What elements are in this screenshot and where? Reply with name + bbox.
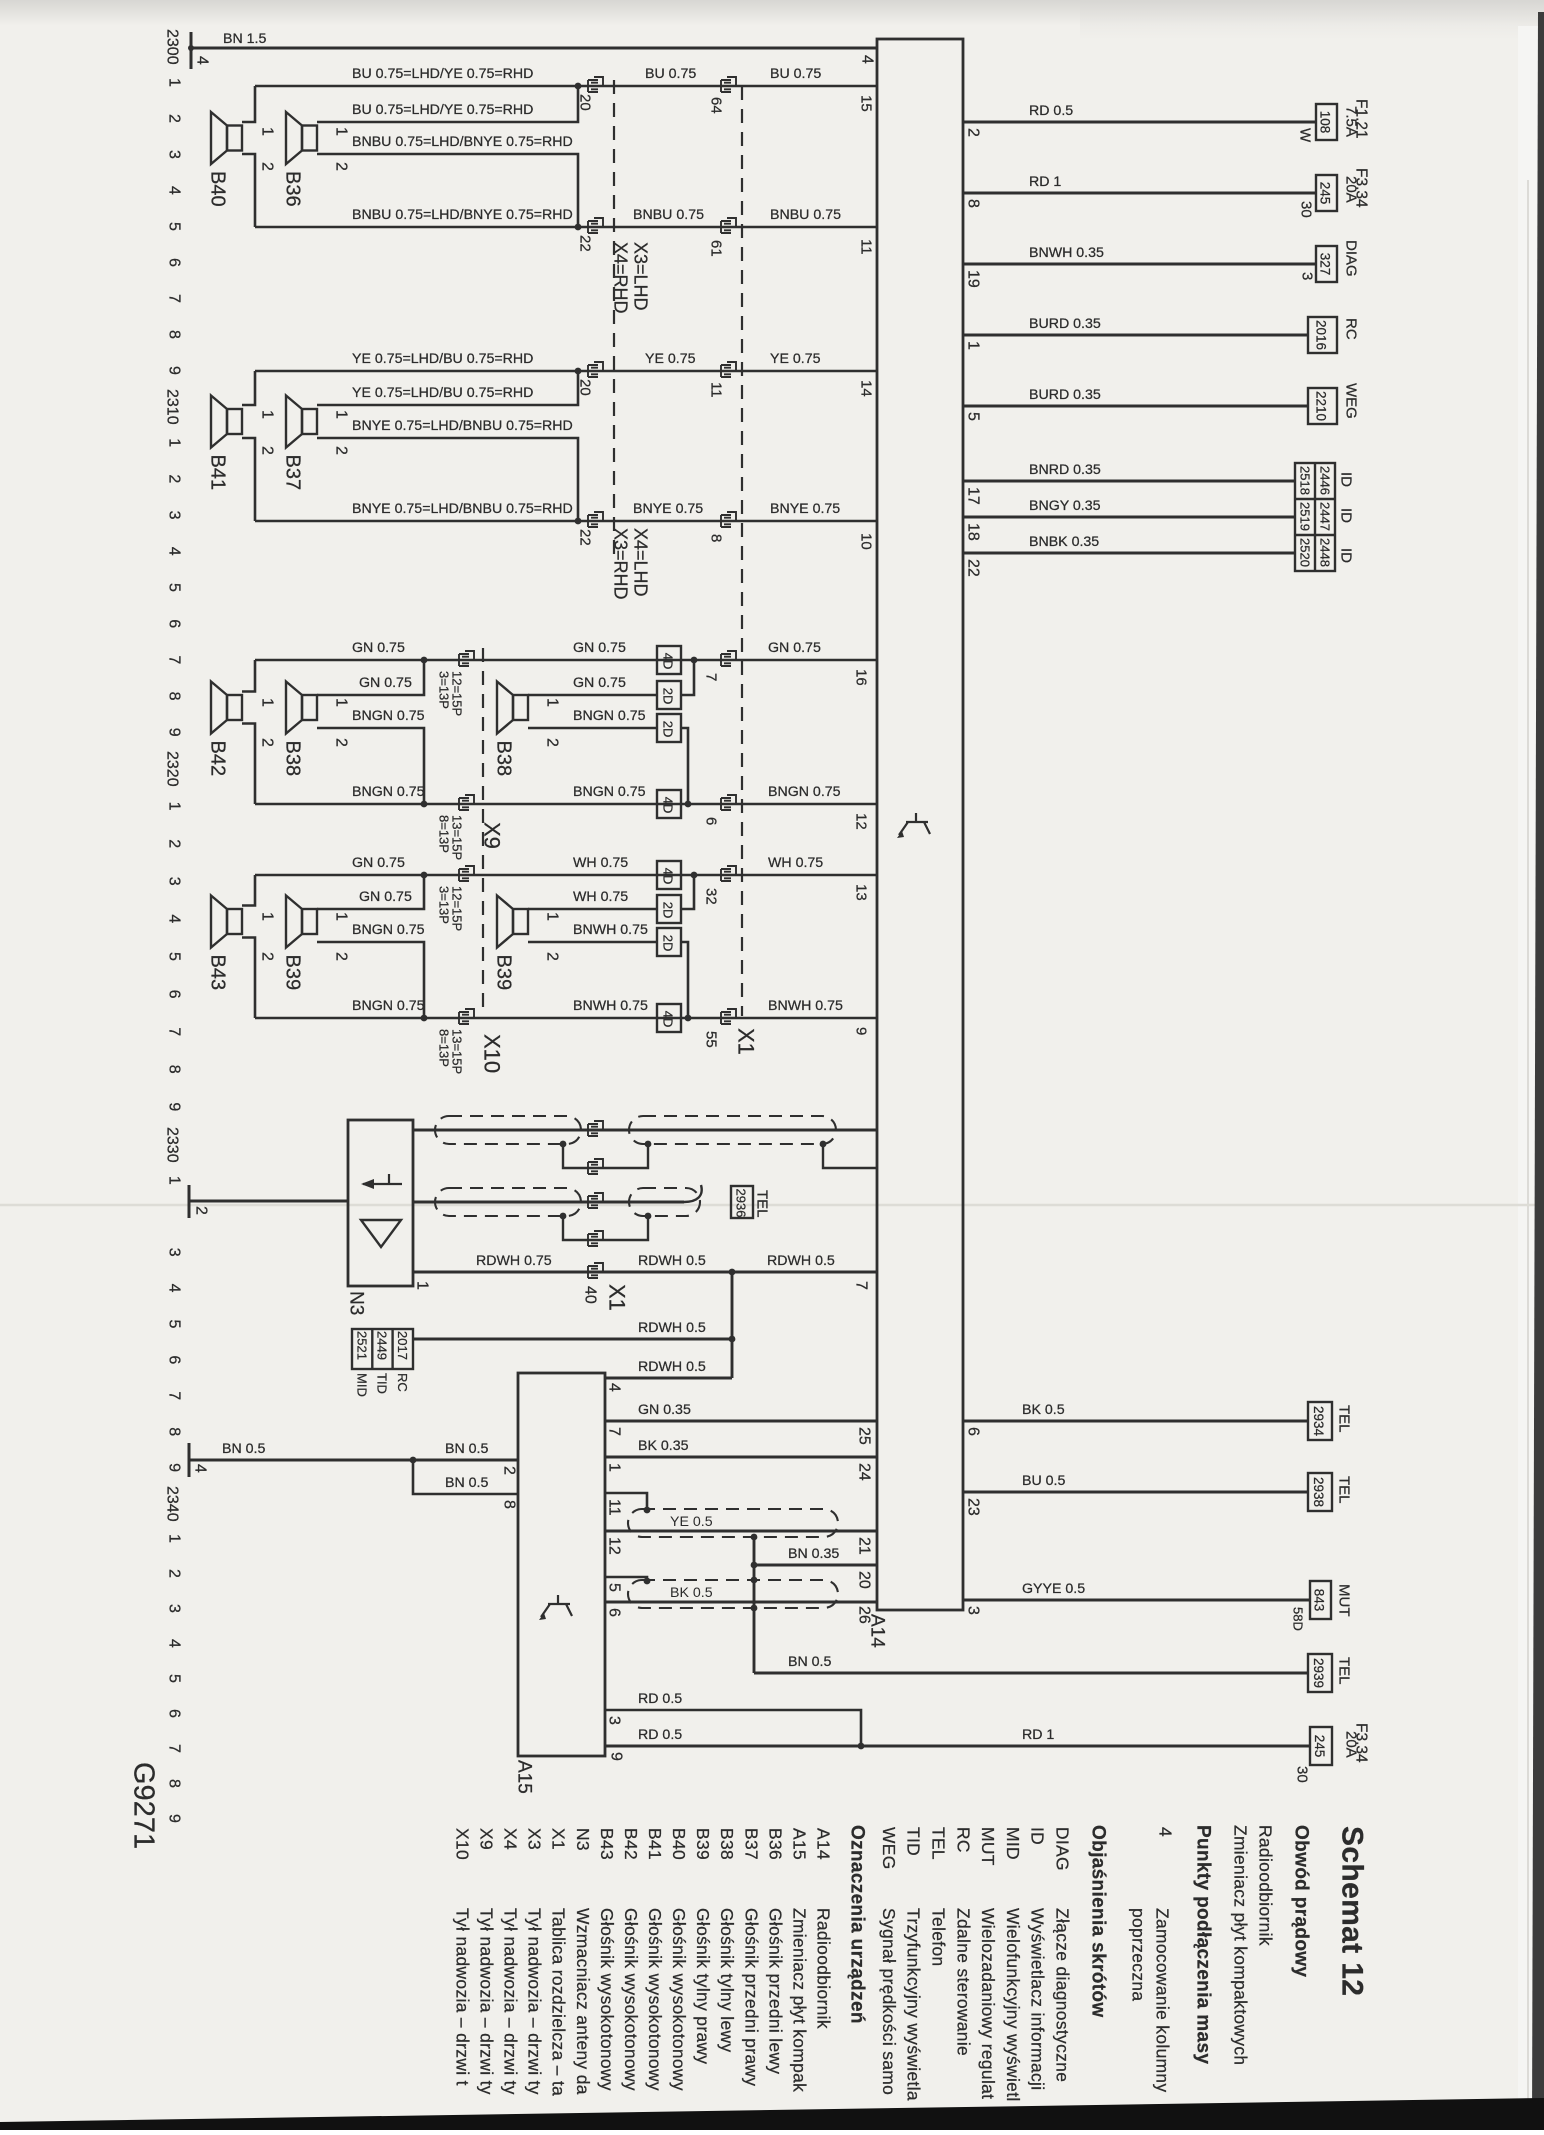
svg-text:6: 6 bbox=[166, 1709, 183, 1718]
svg-text:BNWH 0.75: BNWH 0.75 bbox=[768, 998, 843, 1014]
svg-text:2: 2 bbox=[501, 1466, 518, 1475]
svg-text:1: 1 bbox=[333, 698, 350, 707]
svg-text:8: 8 bbox=[965, 199, 982, 208]
wire BNGN 0.75 (woofer pin 2 join) bbox=[317, 942, 424, 1018]
shield drain to A14 (upper) bbox=[823, 1144, 877, 1168]
svg-text:2449: 2449 bbox=[375, 1331, 390, 1360]
svg-text:1: 1 bbox=[166, 1534, 183, 1543]
svg-text:Głośnik tylny prawy: Głośnik tylny prawy bbox=[693, 1908, 713, 2064]
junction upper pair bbox=[575, 368, 582, 375]
svg-text:BNWH 0.35: BNWH 0.35 bbox=[1029, 245, 1104, 261]
svg-text:BNYE 0.75: BNYE 0.75 bbox=[770, 501, 840, 517]
svg-text:1: 1 bbox=[965, 341, 982, 350]
junction RDWH bbox=[729, 1269, 736, 1276]
svg-text:BNGN 0.75: BNGN 0.75 bbox=[352, 922, 425, 938]
svg-text:20: 20 bbox=[856, 1571, 873, 1589]
svg-text:BNBU 0.75: BNBU 0.75 bbox=[633, 207, 704, 223]
svg-text:Zmieniacz płyt kompak: Zmieniacz płyt kompak bbox=[789, 1908, 809, 2092]
svg-text:2448: 2448 bbox=[1318, 538, 1333, 567]
wire stub B42 pin 1 bbox=[242, 660, 255, 692]
wire BK 0.35 (A15 pin 1 to A14 pin 24) bbox=[605, 1456, 877, 1459]
svg-text:Schemat 12: Schemat 12 bbox=[1336, 1826, 1369, 1996]
svg-text:7: 7 bbox=[166, 1391, 183, 1400]
svg-text:16: 16 bbox=[853, 669, 870, 686]
svg-text:2: 2 bbox=[544, 738, 561, 747]
svg-text:2519: 2519 bbox=[1298, 502, 1313, 531]
wire GN 0.75 via 2D box joining upper bbox=[528, 660, 694, 695]
svg-text:1: 1 bbox=[544, 912, 561, 921]
svg-text:Tył nadwozia – drzwi ty: Tył nadwozia – drzwi ty bbox=[501, 1908, 521, 2095]
variant box 4D (lower) bbox=[657, 1004, 681, 1032]
shield drain junction right (lower) bbox=[645, 1213, 652, 1220]
connector boundary dashed line X9/X10 bbox=[482, 648, 484, 1016]
svg-text:4: 4 bbox=[166, 1284, 183, 1293]
svg-text:327: 327 bbox=[1318, 253, 1333, 276]
svg-text:5: 5 bbox=[166, 1320, 183, 1329]
svg-text:B41: B41 bbox=[645, 1828, 665, 1860]
svg-text:X10: X10 bbox=[480, 1034, 505, 1073]
coax shield upper-right (dashed) bbox=[629, 1116, 836, 1144]
junction 2D to upper bbox=[691, 872, 698, 879]
junction upper join bbox=[421, 657, 428, 664]
wire stub B40 pin 1 bbox=[242, 86, 255, 122]
svg-text:BNBU 0.75: BNBU 0.75 bbox=[770, 207, 841, 223]
connector pin 8 bbox=[721, 512, 736, 527]
svg-text:5: 5 bbox=[606, 1583, 623, 1592]
shield drain junction at A14 side (upper) bbox=[820, 1141, 827, 1148]
speaker B38 (2-door position) bbox=[497, 682, 528, 734]
svg-text:4: 4 bbox=[166, 914, 183, 923]
junction lower join bbox=[421, 1015, 428, 1022]
svg-text:X1: X1 bbox=[549, 1828, 569, 1850]
fuse reference box 108 bbox=[1316, 104, 1337, 140]
svg-text:X3: X3 bbox=[525, 1828, 545, 1850]
svg-text:BNGN 0.75: BNGN 0.75 bbox=[573, 708, 646, 724]
wire BNGY 0.35 (A14 pin 18 to ID) bbox=[963, 516, 1295, 519]
wire A15 pin 5 to shield (BK) bbox=[605, 1577, 647, 1580]
variant box 4D (upper) bbox=[657, 861, 681, 889]
connector pin 22 bbox=[588, 512, 603, 527]
svg-text:RDWH 0.5: RDWH 0.5 bbox=[767, 1253, 835, 1269]
variant box 2D (pin1) bbox=[657, 681, 681, 709]
svg-text:BNYE 0.75: BNYE 0.75 bbox=[633, 501, 703, 517]
wire BNRD 0.35 (A14 pin 17 to ID) bbox=[963, 480, 1295, 483]
radio icon inside A14 bbox=[897, 813, 930, 838]
coax shield lower-left (dashed) bbox=[435, 1188, 581, 1216]
wire BNWH 0.35 (A14 pin 19 to DIAG) bbox=[963, 263, 1316, 266]
svg-text:Oznaczenia urządzeń: Oznaczenia urządzeń bbox=[847, 1825, 868, 2024]
svg-text:X10: X10 bbox=[452, 1828, 472, 1860]
connector boundary dashed line X1 (upper) bbox=[741, 86, 743, 1016]
wire BK 0.5 (A15 pin 6 to A14 pin 26) bbox=[605, 1601, 877, 1604]
svg-text:3: 3 bbox=[166, 1248, 183, 1257]
wire BNBU 0.75=LHD/BNYE 0.75=RHD upper (woofer pin 2, joins lower) bbox=[317, 154, 578, 227]
svg-text:5: 5 bbox=[166, 583, 183, 592]
svg-text:N3: N3 bbox=[573, 1828, 593, 1851]
junction BN split bbox=[410, 1457, 417, 1464]
wire RDWH branch down bbox=[731, 1272, 734, 1378]
svg-text:GN 0.75: GN 0.75 bbox=[573, 675, 626, 691]
svg-text:G9271: G9271 bbox=[128, 1762, 160, 1849]
svg-text:BNGY 0.35: BNGY 0.35 bbox=[1029, 498, 1101, 514]
wire YE 0.75=LHD/BU 0.75=RHD upper (to 20) bbox=[255, 370, 877, 373]
wire BNGN 0.75 (woofer pin 2 join) bbox=[317, 728, 424, 804]
coax shield lower-right (dashed) bbox=[629, 1188, 700, 1216]
svg-text:B39: B39 bbox=[693, 1828, 713, 1860]
svg-text:6: 6 bbox=[606, 1608, 623, 1617]
svg-text:TEL: TEL bbox=[1336, 1657, 1353, 1685]
svg-text:GN 0.75: GN 0.75 bbox=[359, 675, 412, 691]
svg-text:6: 6 bbox=[166, 258, 183, 267]
svg-text:BN 0.5: BN 0.5 bbox=[788, 1654, 831, 1670]
coax shield upper-left (dashed) bbox=[435, 1116, 581, 1144]
svg-text:9: 9 bbox=[166, 1463, 183, 1472]
svg-text:Wyświetlacz informacji: Wyświetlacz informacji bbox=[1028, 1908, 1048, 2090]
speaker B39 (woofer, 4-door) bbox=[286, 896, 317, 948]
svg-text:15: 15 bbox=[858, 95, 875, 112]
wire RD 0.5 / RD 1 (A15 pin 9 to fuse F3.34) bbox=[605, 1745, 1310, 1748]
svg-text:6: 6 bbox=[166, 619, 183, 628]
svg-text:108: 108 bbox=[1318, 111, 1333, 134]
svg-text:7: 7 bbox=[606, 1427, 623, 1436]
reference box 2936 (TEL) bbox=[731, 1186, 753, 1218]
wire BK 0.5 (A14 pin 6 to TEL 2934) bbox=[963, 1420, 1308, 1423]
svg-text:BNYE 0.75=LHD/BNBU 0.75=RHD: BNYE 0.75=LHD/BNBU 0.75=RHD bbox=[352, 501, 573, 517]
svg-text:3: 3 bbox=[1299, 272, 1316, 280]
svg-text:BU 0.75=LHD/YE 0.75=RHD: BU 0.75=LHD/YE 0.75=RHD bbox=[352, 66, 533, 82]
svg-text:5: 5 bbox=[166, 222, 183, 231]
svg-text:2D: 2D bbox=[660, 721, 675, 738]
svg-text:MUT: MUT bbox=[1336, 1584, 1353, 1617]
svg-text:11: 11 bbox=[708, 382, 725, 398]
svg-text:TID: TID bbox=[375, 1373, 390, 1394]
svg-text:ID: ID bbox=[1338, 472, 1355, 487]
wire BNGN 0.75 lower (to A14 pin 9) bbox=[255, 1017, 877, 1020]
svg-text:9: 9 bbox=[853, 1027, 870, 1035]
svg-text:Zmieniacz płyt kompaktowych: Zmieniacz płyt kompaktowych bbox=[1231, 1825, 1251, 2065]
wire BU 0.5 (A14 pin 23 to TEL 2938) bbox=[963, 1491, 1308, 1494]
svg-text:BU 0.75=LHD/YE 0.75=RHD: BU 0.75=LHD/YE 0.75=RHD bbox=[352, 102, 533, 118]
svg-text:4: 4 bbox=[194, 56, 211, 65]
svg-text:2: 2 bbox=[259, 738, 276, 747]
svg-text:2: 2 bbox=[333, 162, 350, 171]
svg-text:B37: B37 bbox=[282, 455, 304, 491]
svg-text:RD 1: RD 1 bbox=[1022, 1727, 1054, 1743]
svg-text:3: 3 bbox=[166, 150, 183, 159]
junction RDWH at table branch bbox=[729, 1336, 736, 1343]
svg-text:Głośnik tylny lewy: Głośnik tylny lewy bbox=[717, 1908, 737, 2053]
svg-text:13: 13 bbox=[853, 884, 870, 901]
svg-text:BNBU 0.75=LHD/BNYE 0.75=RHD: BNBU 0.75=LHD/BNYE 0.75=RHD bbox=[352, 134, 573, 150]
svg-text:2: 2 bbox=[166, 474, 183, 483]
svg-text:B42: B42 bbox=[621, 1828, 641, 1860]
svg-text:Tablica rozdzielcza – ta: Tablica rozdzielcza – ta bbox=[549, 1908, 569, 2096]
connector pin X1 40 bbox=[588, 1263, 603, 1278]
svg-text:2320: 2320 bbox=[164, 751, 181, 787]
wire RDWH 0.75/0.5 (N3 pin 1 to A14 pin 7) bbox=[413, 1271, 877, 1274]
svg-text:1: 1 bbox=[333, 127, 350, 136]
svg-text:1: 1 bbox=[166, 438, 183, 447]
svg-text:BNBK 0.35: BNBK 0.35 bbox=[1029, 534, 1099, 550]
svg-text:4: 4 bbox=[166, 186, 183, 195]
svg-text:Głośnik wysokotonowy: Głośnik wysokotonowy bbox=[645, 1908, 665, 2091]
antenna symbol inside N3 bbox=[361, 1174, 402, 1189]
svg-text:B38: B38 bbox=[282, 741, 304, 777]
svg-text:MID: MID bbox=[355, 1373, 370, 1397]
svg-text:21: 21 bbox=[856, 1537, 873, 1555]
wire BNGN 0.75 via 2D box joining lower bbox=[528, 728, 688, 804]
svg-text:GN 0.75: GN 0.75 bbox=[573, 640, 626, 656]
svg-text:1: 1 bbox=[166, 78, 183, 87]
shield around YE 0.5 (dashed) bbox=[628, 1509, 838, 1537]
speaker B43 (tweeter) bbox=[211, 896, 242, 948]
svg-text:GN 0.35: GN 0.35 bbox=[638, 1402, 691, 1418]
svg-text:2D: 2D bbox=[660, 902, 675, 919]
svg-text:BNBU 0.75=LHD/BNYE 0.75=RHD: BNBU 0.75=LHD/BNYE 0.75=RHD bbox=[352, 207, 573, 223]
svg-text:30: 30 bbox=[1298, 201, 1315, 218]
svg-text:TEL: TEL bbox=[1336, 1476, 1353, 1504]
svg-text:ID: ID bbox=[1338, 508, 1355, 523]
svg-text:BN 1.5: BN 1.5 bbox=[223, 31, 266, 47]
speaker B39 (2-door position) bbox=[497, 896, 528, 948]
wire BNGN 0.75 lower (to A14 pin 12) bbox=[255, 803, 877, 806]
svg-text:1: 1 bbox=[414, 1281, 431, 1290]
ruler scale column net 2300 bbox=[164, 29, 183, 375]
svg-text:WEG: WEG bbox=[1343, 383, 1360, 419]
svg-text:RC: RC bbox=[953, 1827, 973, 1853]
svg-text:9: 9 bbox=[166, 366, 183, 375]
svg-text:Głośnik przedni prawy: Głośnik przedni prawy bbox=[741, 1908, 761, 2086]
junction lower pair bbox=[575, 224, 582, 231]
svg-text:BNWH 0.75: BNWH 0.75 bbox=[573, 998, 648, 1014]
svg-text:20: 20 bbox=[577, 379, 594, 396]
svg-text:MID: MID bbox=[1003, 1827, 1023, 1860]
wire YE 0.75=LHD/BU 0.75=RHD lower (woofer pin 1, joins upper) bbox=[317, 371, 578, 405]
svg-text:12: 12 bbox=[853, 813, 870, 830]
junction 2D to lower bbox=[685, 801, 692, 808]
svg-text:Obwód prądowy: Obwód prądowy bbox=[1291, 1825, 1312, 1977]
svg-text:Głośnik wysokotonowy: Głośnik wysokotonowy bbox=[621, 1908, 641, 2091]
svg-text:22: 22 bbox=[965, 559, 982, 577]
svg-text:BNGN 0.75: BNGN 0.75 bbox=[352, 784, 425, 800]
ruler scale column net 2340 bbox=[164, 1486, 183, 1823]
svg-text:Głośnik wysokotonowy: Głośnik wysokotonowy bbox=[669, 1908, 689, 2091]
svg-text:X3=LHD: X3=LHD bbox=[631, 242, 651, 311]
svg-text:4: 4 bbox=[606, 1383, 623, 1392]
coax inline connector (lower) bbox=[588, 1193, 603, 1208]
svg-text:32: 32 bbox=[703, 888, 720, 905]
wire RD 0.5 (A15 pin 3) bbox=[605, 1710, 861, 1746]
svg-text:843: 843 bbox=[1312, 1589, 1327, 1612]
svg-text:2446: 2446 bbox=[1318, 466, 1333, 495]
svg-text:2521: 2521 bbox=[355, 1331, 370, 1360]
svg-text:Wzmacniacz anteny da: Wzmacniacz anteny da bbox=[573, 1908, 593, 2095]
junction lower join bbox=[421, 801, 428, 808]
svg-text:2: 2 bbox=[333, 738, 350, 747]
svg-text:Zamocowanie kolumny: Zamocowanie kolumny bbox=[1153, 1908, 1173, 2093]
speaker B38 (woofer, 4-door) bbox=[286, 682, 317, 734]
svg-text:BNGN 0.75: BNGN 0.75 bbox=[352, 998, 425, 1014]
reference table 2017/2449/2521 bbox=[352, 1329, 413, 1369]
svg-text:Objaśnienia skrótów: Objaśnienia skrótów bbox=[1088, 1825, 1109, 2017]
variant box 4D (lower) bbox=[657, 790, 681, 818]
svg-text:ID: ID bbox=[1028, 1827, 1048, 1845]
wire BN 0.35 (drain to A14 pin 20) bbox=[754, 1564, 877, 1567]
svg-text:2: 2 bbox=[259, 446, 276, 455]
svg-text:BK 0.35: BK 0.35 bbox=[638, 1438, 689, 1454]
wire BN 1.5 (net 2300 track 4 to A14 pin 4) bbox=[191, 47, 877, 50]
variant box 4D (upper) bbox=[657, 646, 681, 674]
wire BNYE 0.75=LHD/BNBU 0.75=RHD lower (to 22) bbox=[255, 520, 877, 523]
reference box 2939 (TEL) bbox=[1308, 1654, 1332, 1692]
svg-text:7: 7 bbox=[166, 1027, 183, 1036]
svg-text:RD 1: RD 1 bbox=[1029, 174, 1061, 190]
junction 2D to lower bbox=[685, 1015, 692, 1022]
svg-text:4: 4 bbox=[859, 55, 876, 64]
junction pin 11 on shield bbox=[644, 1507, 651, 1514]
connector pin X9 lower bbox=[459, 795, 474, 810]
wire GN 0.75 upper (to A14 pin 16) bbox=[255, 659, 877, 662]
svg-text:TEL: TEL bbox=[1336, 1405, 1353, 1433]
svg-text:GN 0.75: GN 0.75 bbox=[768, 640, 821, 656]
svg-text:7: 7 bbox=[703, 673, 720, 681]
wire BU 0.75=LHD/YE 0.75=RHD upper (to 20) bbox=[255, 85, 877, 88]
svg-text:6: 6 bbox=[166, 990, 183, 999]
junction RD merge bbox=[858, 1743, 865, 1750]
svg-text:YE 0.5: YE 0.5 bbox=[670, 1514, 713, 1530]
wire BN 0.5 branch (to A15 pin 8) bbox=[413, 1460, 518, 1494]
svg-text:6: 6 bbox=[703, 817, 720, 825]
junction upper pair bbox=[575, 83, 582, 90]
svg-text:17: 17 bbox=[965, 487, 982, 505]
svg-text:5: 5 bbox=[965, 412, 982, 421]
svg-text:23: 23 bbox=[965, 1498, 982, 1516]
svg-text:TEL: TEL bbox=[929, 1827, 949, 1860]
svg-text:YE 0.75=LHD/BU 0.75=RHD: YE 0.75=LHD/BU 0.75=RHD bbox=[352, 385, 533, 401]
svg-text:1: 1 bbox=[606, 1463, 623, 1472]
connector pin X1 32 bbox=[721, 866, 736, 881]
junction on net 2300 tick bbox=[188, 45, 194, 51]
svg-text:BK 0.5: BK 0.5 bbox=[670, 1585, 713, 1601]
svg-text:BK 0.5: BK 0.5 bbox=[1022, 1402, 1065, 1418]
svg-text:B39: B39 bbox=[493, 955, 515, 991]
svg-text:2447: 2447 bbox=[1318, 502, 1333, 531]
connector pin 20 bbox=[588, 77, 603, 92]
wire RD 0.5 (A14 pin 2 to fuse F1.21) bbox=[963, 121, 1316, 124]
amplifier triangle inside N3 bbox=[361, 1220, 401, 1247]
svg-text:Zdalne sterowanie: Zdalne sterowanie bbox=[953, 1908, 973, 2056]
svg-text:B42: B42 bbox=[207, 741, 229, 777]
svg-text:4: 4 bbox=[166, 547, 183, 556]
svg-text:4D: 4D bbox=[660, 653, 675, 670]
cd changer A15 box bbox=[518, 1373, 605, 1756]
svg-text:5: 5 bbox=[166, 952, 183, 961]
svg-text:2: 2 bbox=[166, 114, 183, 123]
junction upper join bbox=[421, 872, 428, 879]
svg-text:TID: TID bbox=[904, 1827, 924, 1856]
svg-text:4: 4 bbox=[1156, 1827, 1176, 1837]
svg-text:20A: 20A bbox=[1343, 176, 1360, 203]
svg-text:4: 4 bbox=[192, 1464, 209, 1473]
svg-text:1: 1 bbox=[166, 1176, 183, 1185]
wire BN 0.5 (net 2340 track 4 to A15 pin 2) bbox=[189, 1459, 518, 1462]
svg-text:BN 0.5: BN 0.5 bbox=[222, 1441, 265, 1457]
svg-text:7: 7 bbox=[853, 1281, 870, 1290]
svg-text:Głośnik przedni lewy: Głośnik przedni lewy bbox=[765, 1908, 785, 2074]
wire WH 0.75 via 2D box joining upper bbox=[528, 875, 694, 909]
svg-text:22: 22 bbox=[577, 235, 594, 252]
svg-text:BURD 0.35: BURD 0.35 bbox=[1029, 316, 1101, 332]
svg-text:BU 0.75: BU 0.75 bbox=[645, 66, 696, 82]
svg-text:7: 7 bbox=[166, 655, 183, 664]
svg-text:B40: B40 bbox=[207, 171, 229, 207]
svg-text:2: 2 bbox=[193, 1206, 210, 1215]
svg-text:BNRD 0.35: BNRD 0.35 bbox=[1029, 462, 1101, 478]
svg-text:9: 9 bbox=[166, 1814, 183, 1823]
svg-text:B37: B37 bbox=[741, 1828, 761, 1860]
net 2340 terminal tick bbox=[188, 1443, 191, 1477]
svg-text:2934: 2934 bbox=[1311, 1406, 1326, 1437]
wire BURD 0.35 (A14 pin 1 to RC) bbox=[963, 334, 1308, 337]
svg-text:2: 2 bbox=[965, 128, 982, 137]
svg-text:2: 2 bbox=[259, 162, 276, 171]
svg-text:20: 20 bbox=[577, 94, 594, 111]
svg-text:3: 3 bbox=[606, 1716, 623, 1725]
svg-text:DIAG: DIAG bbox=[1343, 240, 1360, 277]
shield drain connector pin (lower) bbox=[588, 1231, 603, 1246]
junction drain on BK shield top bbox=[751, 1577, 758, 1584]
svg-text:55: 55 bbox=[703, 1031, 720, 1048]
svg-text:BNGN 0.75: BNGN 0.75 bbox=[768, 784, 841, 800]
svg-text:B38: B38 bbox=[493, 741, 515, 777]
connector pin X9 upper bbox=[459, 651, 474, 666]
svg-text:Telefon: Telefon bbox=[929, 1908, 949, 1967]
wire BU 0.75=LHD/YE 0.75=RHD lower (woofer pin 1, joins upper) bbox=[317, 86, 578, 122]
svg-text:RDWH 0.5: RDWH 0.5 bbox=[638, 1320, 706, 1336]
svg-text:10: 10 bbox=[858, 533, 875, 550]
svg-text:2210: 2210 bbox=[1314, 391, 1329, 421]
svg-text:3=13P: 3=13P bbox=[437, 886, 452, 924]
wire GN 0.75 (woofer pin 1 join) bbox=[317, 660, 424, 695]
svg-text:RC: RC bbox=[1343, 318, 1360, 340]
shield drain connector pin (upper) bbox=[588, 1159, 603, 1174]
svg-text:20A: 20A bbox=[1343, 1731, 1360, 1758]
svg-text:6: 6 bbox=[965, 1427, 982, 1436]
fuse reference box 245 (bottom) bbox=[1310, 1727, 1332, 1765]
svg-text:BNGN 0.75: BNGN 0.75 bbox=[573, 784, 646, 800]
svg-text:B36: B36 bbox=[282, 171, 304, 207]
reference box 2934 (TEL) bbox=[1308, 1402, 1332, 1440]
shield drain junction left (lower) bbox=[560, 1213, 567, 1220]
svg-text:B39: B39 bbox=[282, 955, 304, 991]
svg-text:Tył nadwozia – drzwi ty: Tył nadwozia – drzwi ty bbox=[525, 1908, 545, 2095]
svg-text:B41: B41 bbox=[207, 455, 229, 491]
svg-text:3: 3 bbox=[166, 1604, 183, 1613]
wire BURD 0.35 (A14 pin 5 to WEG) bbox=[963, 405, 1308, 408]
net 2300 terminal tick bbox=[190, 32, 193, 69]
svg-text:1: 1 bbox=[259, 698, 276, 707]
shield drain junction left (upper) bbox=[560, 1141, 567, 1148]
svg-text:245: 245 bbox=[1318, 182, 1333, 205]
svg-text:24: 24 bbox=[856, 1463, 873, 1481]
svg-text:2938: 2938 bbox=[1311, 1477, 1326, 1507]
svg-text:WH 0.75: WH 0.75 bbox=[573, 889, 628, 905]
svg-text:30: 30 bbox=[1294, 1766, 1311, 1783]
svg-text:Tył nadwozia – drzwi t: Tył nadwozia – drzwi t bbox=[452, 1908, 472, 2086]
variant box 2D (pin2) bbox=[657, 714, 681, 742]
svg-text:2: 2 bbox=[166, 839, 183, 848]
svg-text:RD 0.5: RD 0.5 bbox=[638, 1727, 682, 1743]
